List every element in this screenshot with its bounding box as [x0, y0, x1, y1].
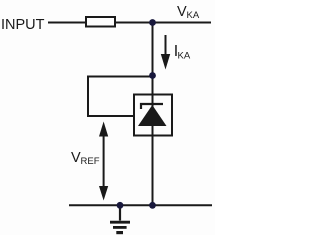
svg-text:REF: REF [81, 156, 100, 167]
svg-text:KA: KA [178, 51, 191, 62]
svg-text:V: V [71, 150, 81, 166]
svg-text:V: V [177, 4, 187, 20]
svg-text:KA: KA [187, 10, 200, 21]
svg-text:INPUT: INPUT [1, 17, 45, 33]
